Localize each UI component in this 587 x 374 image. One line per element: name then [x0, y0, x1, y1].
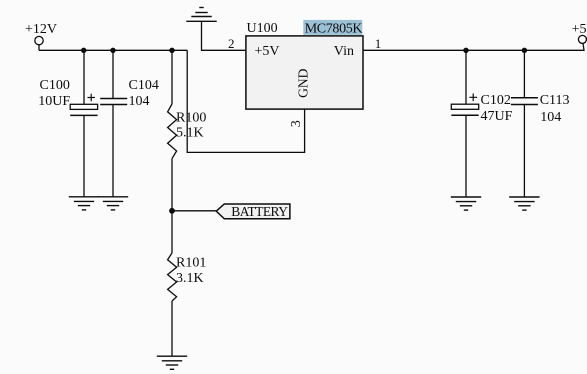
label 47UF	[481, 109, 513, 124]
svg-text:R100: R100	[176, 110, 206, 125]
svg-text:C104: C104	[129, 78, 159, 93]
svg-text:C113: C113	[540, 93, 570, 108]
svg-text:R101: R101	[176, 256, 206, 271]
resistor R100	[168, 104, 177, 159]
pin number 3 rotated	[289, 120, 304, 127]
ground below C113	[509, 197, 539, 210]
wire to R101	[171, 211, 173, 253]
wire C102 top	[465, 50, 467, 104]
label 104 value	[540, 110, 561, 125]
label 3.1K	[176, 271, 204, 286]
wire R100 top	[171, 50, 173, 104]
wire pin1 to +5V terminal	[363, 43, 584, 50]
svg-text:+5V: +5V	[572, 22, 587, 37]
label C104	[129, 78, 159, 93]
pin number 2	[228, 36, 235, 51]
capacitor C100	[70, 94, 97, 116]
svg-text:C100: C100	[40, 78, 70, 93]
label +12V	[25, 22, 57, 37]
ground below C104	[98, 197, 128, 210]
wire C113 top	[523, 50, 525, 98]
svg-text:3: 3	[289, 120, 304, 127]
op-amp U100 regulator box	[246, 36, 363, 109]
wire R101 bottom	[171, 301, 173, 356]
node junction C104	[110, 48, 115, 53]
ground below R101	[157, 356, 187, 369]
resistor R101	[168, 253, 177, 301]
node junction C102	[463, 48, 468, 53]
net label BATTERY flag	[216, 204, 290, 219]
label U100	[247, 21, 278, 36]
wire C113 bottom	[523, 105, 525, 198]
capacitor C104	[100, 99, 127, 105]
wire C104 top	[112, 50, 114, 98]
wire R100 bottom	[171, 159, 173, 211]
label R100	[176, 110, 206, 125]
svg-text:C102: C102	[481, 93, 511, 108]
label C102	[481, 93, 511, 108]
label +5V	[572, 22, 587, 37]
svg-text:GND: GND	[296, 68, 311, 97]
svg-text:47UF: 47UF	[481, 109, 513, 124]
ground top (pin 2)	[186, 8, 216, 22]
svg-text:10UF: 10UF	[38, 94, 70, 109]
svg-text:104: 104	[129, 94, 150, 109]
pin name GND rotated	[296, 68, 311, 97]
label C113	[540, 93, 570, 108]
capacitor C102	[451, 94, 478, 116]
svg-text:1: 1	[375, 36, 382, 51]
svg-text:MC7805K: MC7805K	[305, 21, 363, 36]
wire to BATTERY flag	[172, 210, 216, 212]
svg-text:104: 104	[540, 110, 561, 125]
wire pin2	[202, 21, 246, 50]
pin name +5V	[255, 44, 280, 59]
svg-text:2: 2	[228, 36, 235, 51]
label 10UF	[38, 94, 70, 109]
wire C104 bottom	[112, 105, 114, 197]
label C100	[40, 78, 70, 93]
label 5.1K	[176, 125, 204, 140]
svg-text:+5V: +5V	[255, 44, 280, 59]
svg-text:BATTERY: BATTERY	[231, 204, 288, 219]
terminal +5V	[578, 35, 586, 43]
svg-text:U100: U100	[247, 21, 278, 36]
wire main +12V rail	[39, 49, 187, 51]
ground below C100	[69, 197, 99, 210]
svg-text:Vin: Vin	[334, 44, 354, 59]
label R101	[176, 256, 206, 271]
node junction BATTERY	[169, 208, 175, 214]
svg-text:5.1K: 5.1K	[176, 125, 204, 140]
node junction R100	[169, 48, 174, 53]
wire rail down segment to pin3	[187, 50, 304, 152]
svg-text:3.1K: 3.1K	[176, 271, 204, 286]
label 104	[129, 94, 150, 109]
pin number 1	[375, 36, 382, 51]
terminal +12V	[35, 36, 43, 50]
capacitor C113	[511, 98, 538, 105]
label MC7805K highlighted	[303, 20, 362, 37]
wire C102 bottom	[465, 115, 467, 197]
ground below C102	[451, 197, 481, 210]
node junction C113	[522, 48, 527, 53]
pin name Vin	[334, 44, 354, 59]
wire C100 bottom	[83, 115, 85, 196]
svg-text:+12V: +12V	[25, 22, 57, 37]
wire C100 top	[83, 50, 85, 104]
node junction C100	[81, 48, 86, 53]
